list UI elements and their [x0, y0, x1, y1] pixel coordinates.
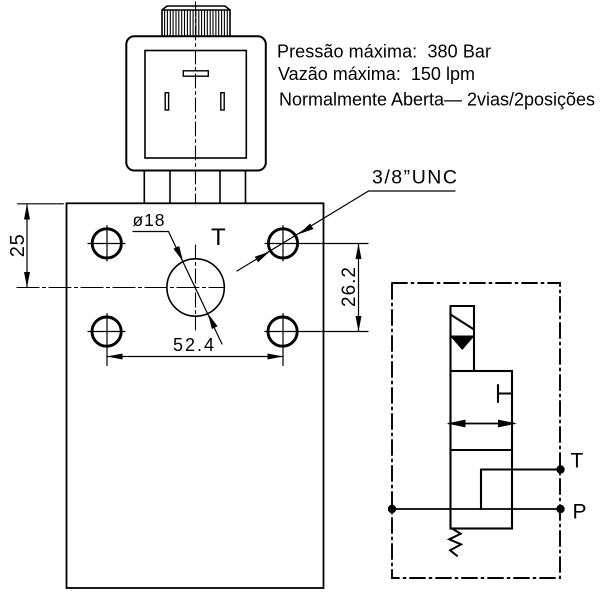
svg-text:52.4: 52.4: [173, 335, 214, 355]
dimension 26.2 (right): [358, 244, 360, 332]
connector pin slot right: [221, 93, 224, 110]
mounting hole bottom-right: [268, 317, 297, 346]
symbol: solenoid actuator box: [451, 306, 475, 371]
dimension 25 (left): [18, 204, 64, 288]
svg-text:26.2: 26.2: [339, 267, 360, 307]
node T: [556, 465, 564, 473]
coil mounting tab right: [220, 171, 246, 204]
node P left: [388, 505, 396, 513]
crosshair bottom-right hole / 26.2 extension bottom / 52.4 extension right: [265, 314, 368, 366]
knurled adjustment knob: [162, 6, 230, 36]
solenoid connector housing (outer): [126, 36, 265, 170]
svg-text:T: T: [211, 224, 226, 251]
knob knurl hatching: [165, 10, 228, 36]
mounting hole bottom-left: [92, 317, 121, 346]
valve body outline: [67, 203, 324, 588]
mounting hole top-right: [268, 229, 297, 258]
crosshair top-right hole / 26.2 extension top: [265, 226, 368, 262]
solenoid connector face (inner): [145, 51, 246, 159]
svg-text:25: 25: [7, 234, 29, 257]
symbol: return spring: [449, 529, 461, 556]
crosshair top-left hole: [88, 226, 125, 262]
symbol: valve envelope (2 positions): [451, 371, 513, 529]
coil mounting tab left: [144, 171, 170, 204]
node P right: [556, 505, 564, 513]
horizontal centerline of bore: [17, 287, 225, 289]
leader 3/8"UNC: [237, 191, 455, 271]
symbol: shift double arrow: [449, 423, 514, 425]
svg-text:Pressão máxima: 380 Bar: Pressão máxima: 380 Bar: [277, 42, 491, 62]
cavity bore circle Ø18: [167, 259, 224, 316]
svg-text:Normalmente Aberta— 2vias/2pos: Normalmente Aberta— 2vias/2posições: [279, 90, 595, 110]
svg-text:3/8”UNC: 3/8”UNC: [372, 167, 457, 189]
symbol: solenoid diagonal: [451, 315, 475, 330]
symbol: blocked port detail: [498, 385, 512, 402]
svg-text:P: P: [573, 501, 587, 524]
svg-text:T: T: [571, 450, 584, 473]
vertical centerline of bore: [195, 245, 197, 330]
leader Ø18: [133, 232, 222, 345]
dimension 52.4 (bottom): [107, 356, 283, 358]
svg-text:Vazão máxima: 150 lpm: Vazão máxima: 150 lpm: [278, 64, 475, 84]
svg-text:ø18: ø18: [133, 210, 165, 230]
symbol: internal flow path P to T: [481, 470, 561, 510]
hydraulic symbol enclosure (dash-dot boundary): [392, 283, 560, 578]
symbol: P line: [392, 508, 561, 510]
symbol: solenoid triangle (proportional): [451, 337, 475, 351]
symbol: position divider: [451, 449, 513, 451]
crosshair bottom-left hole / 52.4 extension left: [88, 314, 125, 366]
connector key slot (horizontal): [183, 71, 208, 76]
connector pin slot left: [165, 93, 168, 110]
mounting hole top-left: [92, 229, 121, 258]
vertical centerline through solenoid: [195, 2, 197, 204]
